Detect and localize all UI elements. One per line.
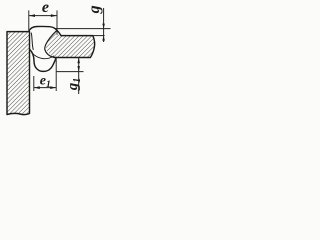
dimension g1 : vertical dimension line xyxy=(78,58,80,94)
svg-text:g: g xyxy=(86,5,103,14)
dimension e : right extension line xyxy=(56,10,58,34)
right fusion line (lower groove face) xyxy=(45,49,54,57)
svg-text:e: e xyxy=(42,0,49,16)
root bead internal fusion arc xyxy=(33,54,54,59)
left vertical plate (hatched) xyxy=(7,32,30,115)
paper background xyxy=(0,0,113,127)
weld crown (top bead outline) xyxy=(29,26,61,35)
dimension g1 : lower extension line (root bead bottom level) xyxy=(57,71,84,73)
dimension e : right arrowhead xyxy=(51,14,57,17)
dimension e1 : right extension line xyxy=(55,58,57,91)
dimension e1 : right arrowhead xyxy=(50,86,56,89)
dimension e : left extension line xyxy=(28,10,30,30)
dimension g : top arrowhead (pointing down) xyxy=(102,24,105,29)
dimension e : left arrowhead xyxy=(29,14,35,17)
right horizontal plate (hatched, with break edge) xyxy=(46,33,95,57)
dimension g1 : bottom arrowhead (pointing down) xyxy=(77,66,80,71)
dimension g1 : top arrowhead (pointing up) xyxy=(77,58,80,63)
dimension g : upper extension line (weld face level) xyxy=(55,28,111,30)
dimension g : lower extension line (plate surface level) xyxy=(93,35,105,37)
root bead outline xyxy=(30,50,56,72)
dimension e1 : dimension line xyxy=(34,87,56,89)
dimension e1 : left arrowhead xyxy=(34,86,40,89)
dimension e1 : left extension line xyxy=(33,76,35,91)
dimension g : bottom arrowhead (pointing up) xyxy=(102,36,105,41)
dimension e : dimension line xyxy=(29,15,57,17)
dimension g : vertical dimension line xyxy=(103,8,105,42)
right fusion line (upper groove bevel) xyxy=(45,30,57,49)
left fusion line (wavy groove edge) xyxy=(31,33,33,50)
